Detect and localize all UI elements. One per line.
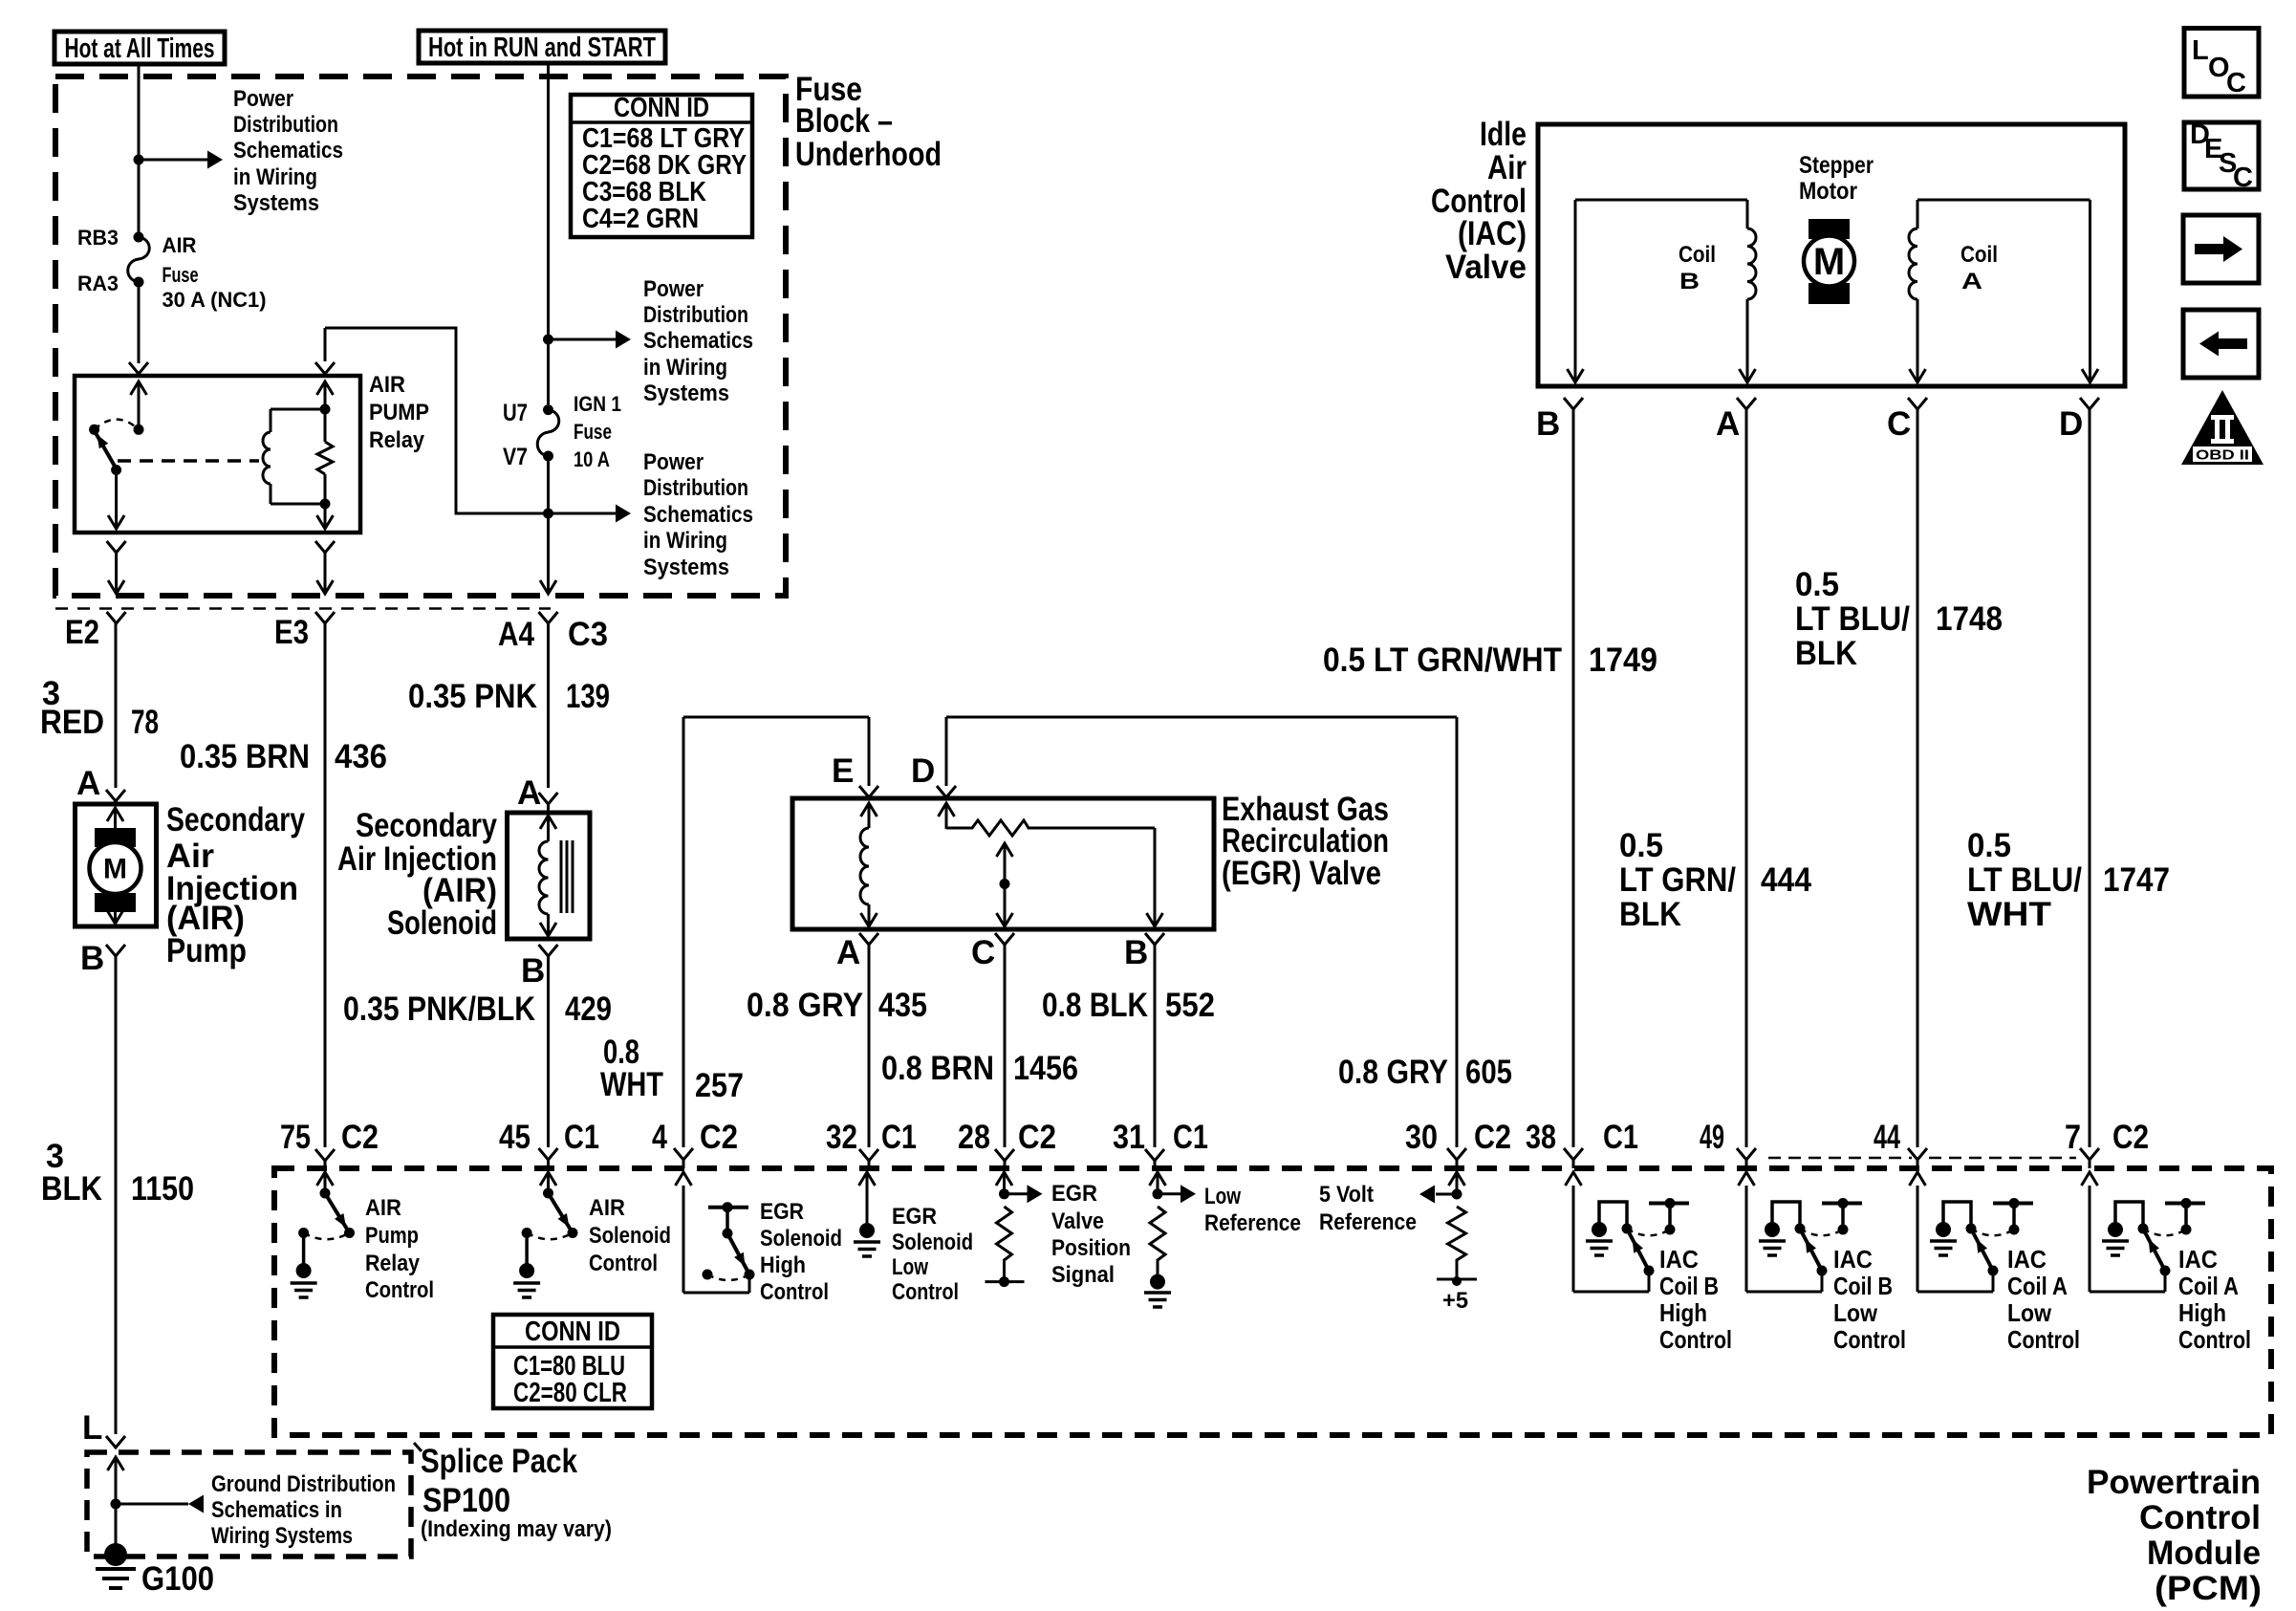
svg-text:0.35 PNK/BLK: 0.35 PNK/BLK bbox=[343, 991, 535, 1028]
svg-text:435: 435 bbox=[878, 987, 927, 1024]
svg-text:L: L bbox=[82, 1409, 102, 1447]
svg-text:Control: Control bbox=[1833, 1325, 1906, 1354]
svg-text:0.5 LT GRN/WHT: 0.5 LT GRN/WHT bbox=[1323, 642, 1562, 679]
svg-text:Fuse: Fuse bbox=[574, 420, 612, 444]
svg-text:1747: 1747 bbox=[2103, 861, 2170, 899]
svg-text:Solenoid: Solenoid bbox=[589, 1223, 671, 1249]
svg-text:Power: Power bbox=[643, 449, 704, 475]
svg-text:0.8 BLK: 0.8 BLK bbox=[1042, 987, 1148, 1024]
svg-text:AIR: AIR bbox=[589, 1195, 625, 1221]
svg-text:Control: Control bbox=[760, 1279, 829, 1305]
svg-text:E2: E2 bbox=[65, 614, 99, 651]
svg-text:Low: Low bbox=[1204, 1184, 1241, 1209]
svg-text:Coil A: Coil A bbox=[2007, 1272, 2068, 1300]
svg-text:Control: Control bbox=[2139, 1499, 2261, 1536]
svg-text:IAC: IAC bbox=[1833, 1245, 1873, 1274]
svg-text:C2: C2 bbox=[2112, 1119, 2149, 1156]
svg-text:Powertrain: Powertrain bbox=[2087, 1464, 2261, 1501]
svg-text:0.5: 0.5 bbox=[1619, 827, 1663, 864]
svg-text:BLK: BLK bbox=[41, 1170, 102, 1208]
svg-text:75: 75 bbox=[280, 1119, 311, 1156]
svg-text:Control: Control bbox=[1659, 1325, 1732, 1354]
svg-text:C2: C2 bbox=[1018, 1119, 1056, 1156]
svg-text:SP100: SP100 bbox=[422, 1482, 510, 1519]
svg-text:0.5: 0.5 bbox=[1967, 827, 2011, 864]
svg-text:M: M bbox=[1813, 241, 1845, 283]
svg-text:Air: Air bbox=[1487, 149, 1527, 186]
svg-text:C1: C1 bbox=[1173, 1119, 1208, 1156]
svg-text:Low: Low bbox=[892, 1254, 928, 1280]
svg-text:5 Volt: 5 Volt bbox=[1319, 1182, 1374, 1208]
svg-text:Coil A: Coil A bbox=[2178, 1272, 2239, 1300]
svg-text:B: B bbox=[521, 952, 545, 990]
svg-text:(PCM): (PCM) bbox=[2155, 1570, 2262, 1607]
svg-text:C2: C2 bbox=[700, 1119, 738, 1156]
svg-text:Secondary: Secondary bbox=[356, 807, 497, 844]
svg-text:LT BLU/: LT BLU/ bbox=[1967, 861, 2082, 899]
svg-text:LT BLU/: LT BLU/ bbox=[1795, 600, 1910, 638]
svg-text:WHT: WHT bbox=[600, 1066, 663, 1103]
svg-text:257: 257 bbox=[695, 1067, 744, 1104]
svg-text:30 A (NC1): 30 A (NC1) bbox=[162, 288, 267, 312]
svg-text:Control: Control bbox=[365, 1277, 434, 1303]
svg-text:7: 7 bbox=[2065, 1119, 2081, 1156]
svg-text:28: 28 bbox=[958, 1119, 990, 1156]
svg-text:High: High bbox=[760, 1252, 806, 1278]
svg-text:38: 38 bbox=[1526, 1119, 1556, 1156]
svg-text:Relay: Relay bbox=[369, 427, 425, 453]
svg-text:Solenoid: Solenoid bbox=[760, 1226, 842, 1252]
svg-text:44: 44 bbox=[1874, 1119, 1900, 1156]
svg-text:E3: E3 bbox=[274, 614, 309, 651]
svg-text:Splice Pack: Splice Pack bbox=[421, 1443, 577, 1480]
svg-text:EGR: EGR bbox=[760, 1199, 804, 1225]
svg-text:0.5: 0.5 bbox=[1795, 566, 1839, 603]
svg-text:Coil B: Coil B bbox=[1833, 1272, 1893, 1300]
svg-text:0.35 BRN: 0.35 BRN bbox=[180, 738, 310, 775]
svg-text:Hot in RUN and START: Hot in RUN and START bbox=[428, 33, 656, 63]
svg-text:Pump: Pump bbox=[166, 932, 247, 969]
svg-text:OBD II: OBD II bbox=[2196, 447, 2249, 464]
svg-text:+5: +5 bbox=[1442, 1288, 1468, 1314]
svg-text:A: A bbox=[836, 934, 860, 971]
svg-text:AIR: AIR bbox=[162, 233, 197, 257]
svg-text:A: A bbox=[1961, 269, 1982, 294]
svg-text:Wiring Systems: Wiring Systems bbox=[211, 1523, 353, 1549]
svg-text:Power: Power bbox=[233, 86, 293, 112]
svg-text:A: A bbox=[517, 774, 541, 812]
svg-text:Coil B: Coil B bbox=[1659, 1272, 1719, 1300]
svg-text:Stepper: Stepper bbox=[1799, 152, 1874, 179]
svg-text:Coil: Coil bbox=[1960, 242, 1998, 268]
svg-text:78: 78 bbox=[131, 704, 159, 741]
svg-text:444: 444 bbox=[1761, 861, 1811, 899]
svg-text:0.8 GRY: 0.8 GRY bbox=[747, 987, 863, 1024]
svg-text:31: 31 bbox=[1113, 1119, 1145, 1156]
svg-text:High: High bbox=[1659, 1298, 1707, 1327]
svg-text:605: 605 bbox=[1465, 1054, 1512, 1091]
svg-text:C: C bbox=[1887, 405, 1911, 443]
svg-text:C4=2 GRN: C4=2 GRN bbox=[582, 204, 699, 234]
svg-text:(IAC): (IAC) bbox=[1458, 215, 1527, 252]
svg-text:U7: U7 bbox=[503, 400, 528, 426]
svg-text:Distribution: Distribution bbox=[233, 112, 338, 138]
svg-text:B: B bbox=[80, 940, 104, 977]
svg-text:Schematics: Schematics bbox=[643, 502, 753, 528]
svg-text:Low: Low bbox=[2007, 1298, 2052, 1327]
svg-text:Module: Module bbox=[2147, 1535, 2261, 1572]
svg-text:C1: C1 bbox=[564, 1119, 599, 1156]
svg-text:RA3: RA3 bbox=[77, 272, 119, 295]
svg-text:B: B bbox=[1679, 269, 1700, 294]
svg-text:Position: Position bbox=[1051, 1235, 1131, 1261]
svg-text:B: B bbox=[1536, 405, 1560, 443]
svg-text:10 A: 10 A bbox=[574, 447, 610, 471]
svg-text:E: E bbox=[832, 752, 854, 790]
svg-text:EGR: EGR bbox=[1051, 1181, 1097, 1207]
svg-text:C: C bbox=[2226, 68, 2246, 98]
svg-text:RB3: RB3 bbox=[77, 226, 119, 250]
svg-text:Distribution: Distribution bbox=[643, 302, 748, 328]
svg-text:Distribution: Distribution bbox=[643, 475, 748, 501]
svg-text:Control: Control bbox=[2178, 1325, 2251, 1354]
svg-text:1748: 1748 bbox=[1936, 600, 2003, 638]
svg-text:552: 552 bbox=[1165, 987, 1215, 1024]
svg-text:C1: C1 bbox=[881, 1119, 917, 1156]
svg-text:Systems: Systems bbox=[643, 555, 729, 580]
svg-text:Motor: Motor bbox=[1799, 178, 1857, 205]
svg-text:IAC: IAC bbox=[2178, 1245, 2218, 1274]
svg-text:WHT: WHT bbox=[1967, 896, 2051, 933]
svg-text:A: A bbox=[1716, 405, 1740, 443]
svg-text:Reference: Reference bbox=[1204, 1210, 1301, 1236]
svg-text:V7: V7 bbox=[503, 444, 528, 470]
svg-text:0.8 GRY: 0.8 GRY bbox=[1338, 1054, 1448, 1091]
svg-text:IGN 1: IGN 1 bbox=[574, 392, 621, 416]
svg-text:PUMP: PUMP bbox=[369, 400, 429, 425]
svg-text:Schematics in: Schematics in bbox=[211, 1497, 342, 1523]
svg-text:L: L bbox=[2192, 35, 2209, 66]
svg-text:Fuse: Fuse bbox=[162, 263, 199, 287]
svg-text:G100: G100 bbox=[141, 1560, 214, 1598]
svg-text:0.8 BRN: 0.8 BRN bbox=[881, 1050, 994, 1087]
svg-text:Systems: Systems bbox=[233, 190, 319, 216]
svg-text:Control: Control bbox=[589, 1251, 658, 1276]
svg-text:in Wiring: in Wiring bbox=[233, 164, 317, 190]
svg-text:A4: A4 bbox=[498, 616, 534, 653]
svg-text:D: D bbox=[911, 752, 935, 790]
svg-text:Systems: Systems bbox=[643, 381, 729, 406]
svg-text:C3: C3 bbox=[568, 616, 608, 653]
svg-text:(Indexing may vary): (Indexing may vary) bbox=[421, 1516, 612, 1542]
svg-text:Control: Control bbox=[2007, 1325, 2080, 1354]
svg-text:Coil: Coil bbox=[1679, 242, 1716, 268]
svg-text:Pump: Pump bbox=[365, 1223, 419, 1249]
svg-text:429: 429 bbox=[565, 991, 612, 1028]
svg-text:0.35 PNK: 0.35 PNK bbox=[408, 678, 537, 715]
svg-text:C2: C2 bbox=[1474, 1119, 1511, 1156]
svg-text:Ground Distribution: Ground Distribution bbox=[211, 1471, 396, 1497]
svg-text:(EGR) Valve: (EGR) Valve bbox=[1222, 855, 1381, 892]
svg-text:1150: 1150 bbox=[131, 1170, 194, 1208]
svg-text:30: 30 bbox=[1405, 1119, 1438, 1156]
svg-text:45: 45 bbox=[499, 1119, 531, 1156]
svg-text:Reference: Reference bbox=[1319, 1209, 1417, 1235]
svg-text:in Wiring: in Wiring bbox=[643, 355, 727, 381]
svg-text:Solenoid: Solenoid bbox=[892, 1230, 973, 1255]
svg-text:BLK: BLK bbox=[1619, 896, 1681, 933]
svg-text:RED: RED bbox=[40, 704, 104, 741]
svg-text:Schematics: Schematics bbox=[643, 328, 753, 354]
svg-text:Low: Low bbox=[1833, 1298, 1878, 1327]
svg-text:Schematics: Schematics bbox=[233, 138, 343, 163]
svg-text:LT GRN/: LT GRN/ bbox=[1619, 861, 1736, 899]
svg-text:High: High bbox=[2178, 1298, 2226, 1327]
svg-text:Idle: Idle bbox=[1480, 116, 1527, 153]
svg-text:Block –: Block – bbox=[795, 102, 893, 140]
svg-text:in Wiring: in Wiring bbox=[643, 528, 727, 554]
svg-text:C: C bbox=[2233, 163, 2253, 193]
svg-text:Secondary: Secondary bbox=[166, 801, 305, 838]
svg-text:49: 49 bbox=[1700, 1119, 1724, 1156]
svg-text:Relay: Relay bbox=[365, 1251, 421, 1276]
svg-text:M: M bbox=[103, 854, 127, 885]
svg-text:Valve: Valve bbox=[1051, 1208, 1104, 1234]
svg-text:4: 4 bbox=[652, 1119, 667, 1156]
svg-text:IAC: IAC bbox=[2007, 1245, 2047, 1274]
svg-text:A: A bbox=[76, 765, 100, 802]
svg-text:Valve: Valve bbox=[1445, 249, 1527, 286]
svg-text:B: B bbox=[1124, 934, 1148, 971]
svg-text:Control: Control bbox=[892, 1279, 959, 1305]
svg-text:D: D bbox=[2059, 405, 2083, 443]
svg-text:Signal: Signal bbox=[1051, 1262, 1115, 1288]
svg-text:32: 32 bbox=[826, 1119, 857, 1156]
svg-text:CONN ID: CONN ID bbox=[525, 1317, 620, 1347]
svg-text:BLK: BLK bbox=[1795, 635, 1857, 672]
svg-text:IAC: IAC bbox=[1659, 1245, 1699, 1274]
svg-text:436: 436 bbox=[335, 738, 387, 775]
svg-text:C1: C1 bbox=[1603, 1119, 1638, 1156]
svg-text:AIR: AIR bbox=[365, 1195, 401, 1221]
svg-text:Solenoid: Solenoid bbox=[387, 904, 497, 942]
svg-text:1749: 1749 bbox=[1589, 642, 1657, 679]
svg-text:139: 139 bbox=[566, 678, 610, 715]
svg-text:Underhood: Underhood bbox=[795, 136, 942, 173]
svg-text:C: C bbox=[971, 934, 995, 971]
svg-text:CONN ID: CONN ID bbox=[614, 93, 709, 123]
svg-text:C2=80 CLR: C2=80 CLR bbox=[513, 1378, 627, 1408]
svg-text:EGR: EGR bbox=[892, 1204, 937, 1230]
svg-text:Hot at All Times: Hot at All Times bbox=[65, 33, 215, 64]
svg-text:C2: C2 bbox=[341, 1119, 379, 1156]
svg-text:1456: 1456 bbox=[1013, 1050, 1078, 1087]
svg-text:Power: Power bbox=[643, 276, 704, 302]
svg-text:AIR: AIR bbox=[369, 372, 405, 398]
